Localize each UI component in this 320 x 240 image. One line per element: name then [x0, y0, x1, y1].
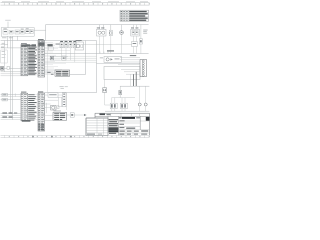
wire mid row 60.2: [53, 59, 97, 61]
relay K2: [3, 28, 8, 34]
wire bottom-left row 96.6: [1, 96, 21, 98]
wire drop J2 a: [130, 74, 132, 86]
junction box E4: [132, 42, 138, 47]
wire legs lamp group E3: [132, 25, 134, 30]
wire big box to valve: [104, 80, 106, 88]
wire bus vertical A: [7, 36, 9, 48]
sheet reference arrow: [84, 114, 87, 116]
component label strip: [26, 44, 53, 46]
lamp group E3: [131, 28, 140, 37]
fuse F2: [119, 86, 122, 95]
plug mark right of G1: [57, 106, 59, 109]
lamp L2: [144, 86, 147, 111]
wire bottom-left row 99.6: [1, 99, 21, 101]
inline connector on row 94.6: [2, 93, 7, 96]
relay box K1 dashed enclosure: [1, 28, 34, 37]
wire bus vertical C: [12, 36, 14, 119]
mid vertical riser: [47, 45, 49, 93]
horn H1: [120, 25, 124, 35]
relay carrier big box: [104, 67, 140, 80]
connector table X1 upper: [21, 43, 28, 76]
wire distribution bus: [45, 53, 149, 55]
micro relay K8: [48, 47, 53, 50]
labels row 113.6: [2, 112, 17, 115]
wire into TB1 row2: [45, 72, 55, 74]
connector plug left dark: [1, 67, 4, 71]
fuel pump box M2: [100, 57, 122, 63]
dark header strip of X1: [21, 45, 27, 47]
terminal strip TB1: [47, 70, 70, 76]
relay row: [60, 41, 76, 48]
wires between tables lower: [28, 95, 38, 120]
motor box M1: [75, 40, 83, 50]
wire bottom-left row 113.6: [1, 113, 21, 115]
wire bottom-left row 115.6: [1, 115, 21, 117]
wire mid row 62.2: [45, 61, 97, 63]
relay K7: [30, 30, 33, 34]
wire left input 2: [1, 47, 21, 49]
connector J2: [140, 60, 147, 77]
wire mid row 56.2: [53, 55, 97, 57]
wire bus vertical B: [10, 36, 12, 113]
valve Y1: [103, 88, 107, 93]
wire into G1: [45, 107, 51, 109]
wire legs E4: [132, 47, 134, 54]
wire vertical right of strip: [66, 92, 68, 110]
dark bottom row of X1 lower: [22, 120, 31, 122]
title block header cells: [95, 114, 150, 117]
wire motor M1 to junction E4: [83, 44, 131, 46]
inline connector left: [7, 66, 9, 69]
fuse F1: [139, 25, 142, 44]
sheet bottom ruler band: [1, 135, 150, 137]
wire to sheet ref arrow: [74, 114, 84, 116]
lamp group E1: [97, 28, 107, 37]
wire below fuse F2: [119, 95, 121, 98]
sensor E2: [109, 25, 112, 36]
wire bottom-left row 119.6: [1, 119, 21, 121]
outer enclosure bottom edge: [45, 92, 97, 94]
net labels right of X1 lower: [28, 94, 36, 120]
solenoid pair V1: [110, 98, 117, 112]
terminal table TB2: [53, 111, 67, 121]
title block right cell: [141, 130, 148, 134]
wire stub vertical D: [17, 36, 19, 40]
wires between tables upper: [28, 46, 38, 75]
wire top bus: [46, 24, 149, 26]
inner enclosure right edge: [85, 41, 87, 75]
sheet top ruler band: [1, 1, 150, 5]
wire legs relay row: [62, 48, 75, 62]
label above stub: [5, 20, 11, 21]
wire into TB2: [45, 114, 53, 116]
wire right bus 63.5: [97, 63, 141, 65]
switch box S1: [48, 93, 58, 97]
wire bottom-left row 117.6: [1, 117, 21, 119]
wire bottom-left row 94.6: [1, 94, 21, 96]
title block dark logo bar: [122, 117, 135, 119]
wire from valve Y1: [105, 92, 111, 105]
diode D2: [62, 56, 66, 60]
sensor G1: [51, 105, 56, 110]
dark lower rows of X2 lower: [38, 124, 44, 130]
tick on row 96.6: [14, 93, 16, 96]
relay K6: [26, 28, 30, 33]
label text right of fuse: [143, 29, 147, 32]
wire out of TB2: [67, 114, 71, 116]
wire into S1: [45, 94, 48, 96]
labels under enclosure: [2, 36, 7, 39]
fan wires to J2: [118, 58, 140, 75]
lamp L1: [138, 86, 141, 111]
outer enclosure right edge: [96, 41, 98, 93]
wire drop 2: [103, 25, 105, 30]
relay K4: [15, 30, 20, 34]
title header more cells: [111, 113, 140, 118]
title block black corner cell: [146, 117, 150, 121]
labels row 117.6: [2, 116, 12, 119]
note text near 60 86: [60, 86, 68, 89]
wire row 100.2: [45, 99, 59, 101]
wire leg sensor E2: [110, 36, 112, 54]
title block middle cells: [119, 116, 150, 135]
connector table X2 upper: [38, 39, 45, 77]
label above connector J2: [130, 54, 136, 57]
title block outline: [86, 113, 150, 135]
wire into TB1 row1: [45, 70, 55, 72]
wire leg fuse F1: [140, 44, 142, 54]
wire left row 68: [4, 67, 22, 69]
wire from enclosure to riser: [34, 29, 45, 31]
wire left row 73.8: [1, 73, 21, 75]
net labels right of X1 upper: [28, 45, 37, 75]
wire main bus: [1, 40, 97, 42]
wire left row 75.8: [1, 75, 21, 77]
solenoid pair V2: [120, 98, 127, 112]
power feed dark wire 2: [135, 72, 137, 86]
diode module D1: [50, 56, 53, 60]
wire mid row 58.2: [50, 57, 96, 59]
module box A: [58, 97, 62, 107]
wire leg horn: [121, 34, 123, 53]
wire left input 1: [1, 43, 8, 45]
wire vertical lower-left: [46, 103, 48, 113]
wire riser to top bus: [45, 25, 47, 41]
wire below TB2: [45, 120, 53, 122]
relay K5: [21, 29, 25, 34]
connector table X2 lower: [38, 91, 45, 131]
ticks above distribution bus: [100, 52, 108, 54]
wire vertical E left: [4, 41, 6, 72]
wire row 104: [45, 103, 51, 105]
label above distribution bus: [107, 50, 114, 51]
label text small left of relay row: [56, 43, 60, 46]
relay K3: [10, 30, 14, 34]
dark pin strip of X2 top: [38, 42, 44, 46]
inline connector C2: [70, 113, 74, 117]
wire out of S1: [58, 95, 62, 97]
wires right of X2 upper: [45, 42, 70, 74]
wire feed row 97.6: [112, 97, 135, 99]
connector strip B: [62, 92, 66, 106]
revision table: [120, 10, 149, 21]
inline connector on row 99.6: [2, 98, 7, 101]
title block dense text: [108, 116, 119, 135]
wire right rail 86.2: [120, 85, 149, 87]
switch module box left: [1, 50, 7, 63]
connector table X1 lower: [21, 92, 28, 121]
wire TB1 to inner box: [70, 74, 86, 76]
wire drop to lamp group: [99, 25, 101, 30]
approval table: [86, 118, 108, 135]
ground rail: [105, 110, 149, 112]
power feed dark wire 1: [133, 74, 135, 86]
antenna stub wire: [7, 22, 9, 28]
wire legs lamp group: [99, 36, 101, 54]
wire left row 71.8: [1, 71, 21, 73]
